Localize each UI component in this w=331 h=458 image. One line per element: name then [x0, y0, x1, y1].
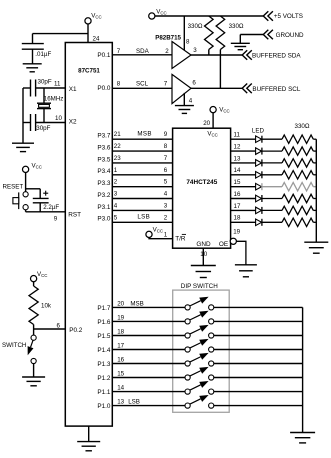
svg-text:9: 9 [54, 215, 58, 222]
capacitor C2 30pF plates [30, 80, 32, 97]
wire LED D6 to resistor [262, 198, 282, 200]
wire P3.0 to U3 [112, 221, 172, 223]
svg-text:P0.1: P0.1 [97, 52, 111, 59]
IC U1 87C751 microcontroller body [65, 43, 112, 427]
wire DIP switch row 7 to bus [214, 391, 303, 393]
svg-text:P1.3: P1.3 [97, 361, 111, 368]
crystal Y1 16MHz [37, 102, 51, 104]
svg-text:GND: GND [196, 241, 211, 248]
wire P1.7 to DIP switch [112, 306, 185, 308]
svg-text:P0.2: P0.2 [69, 327, 83, 334]
svg-text:SWITCH: SWITCH [2, 342, 26, 349]
LED D3 [256, 160, 262, 167]
wire P3.7 to U3 [112, 138, 172, 140]
capacitor C3 30pF plates [30, 114, 32, 131]
svg-text:11: 11 [234, 132, 241, 139]
wire Vcc rail to decoupling cap [33, 33, 89, 35]
power Vcc symbol for P82B715 rail [149, 13, 155, 19]
resistor 330 ohm row 6 [282, 194, 313, 202]
ground below switch [22, 376, 45, 378]
svg-text:30pF: 30pF [36, 125, 50, 132]
ground at connector [231, 42, 250, 44]
wire P1.3 to DIP switch [112, 363, 185, 365]
svg-text:19: 19 [117, 315, 124, 322]
wire U3 pin 13 to LED [231, 162, 256, 164]
wire LED ground bus [315, 139, 317, 242]
wire LED D1 to resistor [262, 138, 282, 140]
buffer U2a triangle [172, 42, 191, 69]
svg-text:16: 16 [117, 357, 124, 364]
power Vcc symbol for pin 1 [146, 231, 152, 237]
wire LED D2 to resistor [262, 150, 282, 152]
svg-text:10: 10 [200, 251, 207, 258]
svg-text:P3.6: P3.6 [97, 145, 111, 152]
svg-text:2.2µF: 2.2µF [43, 204, 59, 211]
svg-text:30pF: 30pF [38, 79, 52, 86]
svg-text:P3.7: P3.7 [97, 133, 111, 140]
svg-text:OE: OE [219, 241, 228, 248]
LED D8 [256, 219, 262, 226]
svg-text:21: 21 [114, 131, 121, 138]
wire crystal cap ground rail [22, 88, 24, 143]
wire C1 to ground [32, 49, 34, 64]
wire pin 4 to ground [183, 93, 185, 106]
wire resistor row 7 to bus [313, 209, 316, 211]
svg-text:P1.5: P1.5 [97, 333, 111, 340]
wire reset node to cap C4 [26, 188, 41, 190]
svg-text:+5 VOLTS: +5 VOLTS [274, 13, 303, 20]
svg-text:13: 13 [234, 155, 241, 162]
svg-text:20: 20 [117, 301, 124, 308]
wire P1.0 to DIP switch [112, 405, 185, 407]
wire P3.3 to U3 [112, 186, 172, 188]
capacitor C4 2.2uF plates [33, 197, 49, 199]
svg-text:BUFFERED SDA: BUFFERED SDA [252, 53, 301, 60]
svg-text:P1.0: P1.0 [97, 403, 111, 410]
wire C4 to RST net [39, 203, 41, 212]
svg-text:15: 15 [117, 371, 124, 378]
wire OE to ground [236, 241, 246, 264]
wire U3 pin 17 to LED [231, 209, 256, 211]
svg-text:330Ω: 330Ω [229, 23, 244, 30]
svg-text:18: 18 [117, 329, 124, 336]
svg-text:3: 3 [114, 191, 118, 198]
resistor R1 330 ohm pull-up [205, 16, 214, 50]
wire P1.4 to DIP switch [112, 349, 185, 351]
wire DIP switch row 1 to bus [214, 306, 303, 308]
wire P3.4 to U3 [112, 174, 172, 176]
wire Vcc to reset switch [25, 173, 27, 193]
connector BUFFERED SDA [242, 50, 247, 60]
wire P3.2 to U3 [112, 198, 172, 200]
wire P3.5 to U3 [112, 162, 172, 164]
wire pin 8 to rail [183, 16, 185, 51]
wire U3 pin 11 to LED [231, 138, 256, 140]
connector BUFFERED SCL [242, 84, 247, 94]
svg-text:7: 7 [117, 48, 121, 55]
DIP switch lever 2 [190, 315, 201, 320]
svg-text:P3.0: P3.0 [97, 216, 111, 223]
svg-text:P82B715: P82B715 [155, 35, 181, 42]
wire P3.1 to U3 [112, 209, 172, 211]
resistor 330 ohm row 5 [282, 183, 313, 191]
wire DIP switch row 6 to bus [214, 377, 303, 379]
svg-text:22: 22 [114, 143, 121, 150]
svg-text:MSB: MSB [130, 301, 143, 308]
DIP switch pole 4 [185, 347, 190, 352]
svg-text:3: 3 [193, 47, 197, 54]
svg-text:5: 5 [114, 214, 118, 221]
resistor R3 10k [33, 282, 35, 286]
DIP switch pole 2 [185, 319, 190, 324]
svg-text:17: 17 [234, 203, 241, 210]
svg-text:16MHz: 16MHz [44, 95, 64, 102]
wire resistor row 2 to bus [313, 150, 316, 152]
buffer U2b triangle [172, 74, 191, 103]
svg-text:P3.1: P3.1 [97, 204, 111, 211]
svg-text:1: 1 [164, 231, 168, 238]
capacitor C1 .01uF plates [22, 43, 44, 45]
wire U3 pin 12 to LED [231, 150, 256, 152]
svg-text:2: 2 [114, 179, 118, 186]
wire ground connector [240, 34, 263, 36]
svg-text:24: 24 [93, 35, 100, 42]
DIP switch lever 1 [190, 301, 201, 306]
wire P0.2 net [34, 328, 66, 330]
svg-text:87C751: 87C751 [78, 67, 100, 74]
wire MCU Vss to ground [88, 426, 90, 442]
LED D1 [256, 136, 262, 143]
svg-text:2: 2 [164, 214, 168, 221]
svg-text:4: 4 [114, 202, 118, 209]
LED D2 [256, 148, 262, 155]
LED D7 [256, 207, 262, 214]
DIP switch pole 8 [185, 403, 190, 408]
resistor 330 ohm row 7 [282, 206, 313, 214]
DIP switch pole 3 [185, 333, 190, 338]
wire +5V rail [155, 15, 263, 17]
svg-text:.01µF: .01µF [35, 51, 51, 58]
svg-text:17: 17 [117, 343, 124, 350]
svg-text:VCC: VCC [37, 271, 47, 278]
svg-text:6: 6 [57, 322, 61, 329]
wire DIP ground bus [302, 307, 304, 432]
svg-text:GROUND: GROUND [276, 32, 304, 39]
wire resistor row 4 to bus [313, 174, 316, 176]
wire SCL net [112, 87, 172, 89]
wire X1 net [23, 87, 31, 89]
svg-text:P1.2: P1.2 [97, 375, 111, 382]
svg-text:T/R: T/R [175, 236, 186, 243]
DIP switch lever 8 [190, 399, 201, 404]
svg-text:7: 7 [164, 80, 168, 87]
svg-text:14: 14 [234, 167, 241, 174]
svg-text:P3.5: P3.5 [97, 156, 111, 163]
DIP switch lever 4 [190, 343, 201, 348]
resistor 330 ohm row 2 [282, 147, 313, 155]
svg-text:X1: X1 [69, 86, 77, 93]
svg-text:SDA: SDA [136, 48, 150, 55]
wire buffered SCL [191, 87, 242, 89]
IC U3 74HCT245 body [173, 128, 231, 248]
wire P3.6 to U3 [112, 150, 172, 152]
svg-text:11: 11 [54, 80, 61, 87]
svg-text:15: 15 [234, 179, 241, 186]
svg-text:LSB: LSB [137, 214, 150, 221]
svg-text:P1.4: P1.4 [97, 347, 111, 354]
DIP switch lever 7 [190, 385, 201, 390]
svg-text:10: 10 [55, 115, 62, 122]
svg-text:RESET: RESET [3, 184, 24, 191]
svg-text:8: 8 [117, 81, 121, 88]
wire resistor row 8 to bus [313, 221, 316, 223]
connector GROUND [263, 30, 268, 40]
svg-text:20: 20 [203, 120, 210, 127]
wire X1 to crystal [43, 88, 45, 103]
wire resistor row 1 to bus [313, 138, 316, 140]
DIP switch box [173, 290, 230, 412]
capacitor C1 .01uF lead [32, 34, 34, 44]
wire P1.5 to DIP switch [112, 335, 185, 337]
resistor 330 ohm row 8 [282, 218, 313, 226]
DIP switch pole 7 [185, 389, 190, 394]
DIP switch pole 5 [185, 361, 190, 366]
svg-text:BUFFERED SCL: BUFFERED SCL [252, 86, 300, 93]
wire buffered SDA [191, 54, 242, 56]
ground below C1 [23, 63, 42, 65]
svg-text:10k: 10k [41, 303, 52, 310]
wire P1.2 to DIP switch [112, 377, 185, 379]
svg-text:VCC: VCC [219, 107, 229, 114]
resistor 330 ohm row 4 [282, 171, 313, 179]
LED D6 [256, 195, 262, 202]
pushbutton S1 RESET contacts [23, 192, 28, 197]
wire P1.6 to DIP switch [112, 320, 185, 322]
svg-text:330Ω: 330Ω [295, 123, 310, 130]
wire LED D8 to resistor [262, 221, 282, 223]
svg-text:12: 12 [234, 144, 241, 151]
svg-text:P1.6: P1.6 [97, 319, 111, 326]
svg-text:23: 23 [114, 155, 121, 162]
DIP switch lever 5 [190, 357, 201, 362]
wire LED D5 to resistor [262, 186, 282, 188]
wire RST net [26, 211, 66, 213]
DIP switch pole 6 [185, 375, 190, 380]
wire U3 pin 16 to LED [231, 198, 256, 200]
svg-text:3: 3 [164, 202, 168, 209]
wire Vcc to pin 24 [87, 24, 89, 43]
svg-text:6: 6 [192, 79, 196, 86]
connector +5 VOLTS [263, 11, 268, 21]
svg-text:X2: X2 [69, 118, 77, 125]
ground below OE [235, 264, 257, 266]
svg-text:P0.0: P0.0 [97, 85, 111, 92]
wire LED D3 to resistor [262, 162, 282, 164]
power Vcc symbol for 10k [30, 276, 36, 282]
wire P1.1 to DIP switch [112, 391, 185, 393]
wire U3 pin 14 to LED [231, 174, 256, 176]
DIP switch lever 6 [190, 371, 201, 376]
svg-text:VCC: VCC [32, 162, 42, 169]
wire resistor row 6 to bus [313, 198, 316, 200]
power Vcc symbol for reset [23, 166, 29, 172]
svg-text:7: 7 [164, 155, 168, 162]
svg-text:VCC: VCC [91, 12, 101, 19]
resistor 330 ohm row 1 [282, 135, 313, 143]
resistor 330 ohm row 3 [282, 159, 313, 167]
wire GND pin 10 to ground [202, 248, 204, 265]
wire DIP switch row 3 to bus [214, 335, 303, 337]
svg-text:14: 14 [117, 385, 124, 392]
LED D5 [256, 183, 262, 190]
switch S2 lower contact [31, 358, 36, 363]
svg-text:2: 2 [165, 48, 169, 55]
ground below MCU [77, 441, 100, 443]
svg-text:P1.7: P1.7 [97, 305, 111, 312]
svg-text:LSB: LSB [128, 399, 140, 406]
svg-text:MSB: MSB [137, 130, 151, 137]
svg-text:P3.4: P3.4 [97, 168, 111, 175]
wire node to switch [33, 329, 35, 335]
svg-text:8: 8 [164, 143, 168, 150]
ground below LED bus [304, 241, 328, 243]
svg-text:VCC: VCC [153, 226, 163, 233]
svg-text:P1.1: P1.1 [97, 389, 111, 396]
svg-text:74HCT245: 74HCT245 [186, 179, 217, 186]
wire switch to ground [33, 363, 35, 377]
switch S2 lever [31, 340, 33, 347]
power Vcc symbol for pin 24 [85, 18, 91, 24]
svg-text:5: 5 [164, 179, 168, 186]
DIP switch lever 3 [190, 329, 201, 334]
svg-text:9: 9 [164, 131, 168, 138]
wire resistor row 3 to bus [313, 162, 316, 164]
wire resistor row 5 to bus [313, 186, 316, 188]
svg-text:1: 1 [114, 167, 118, 174]
wire DIP switch row 5 to bus [214, 363, 303, 365]
ground below U2 pin 4 [175, 105, 194, 107]
wire DIP switch row 8 to bus [214, 405, 303, 407]
wire LED D7 to resistor [262, 209, 282, 211]
svg-text:DIP SWITCH: DIP SWITCH [181, 283, 218, 290]
DIP switch pole 1 [185, 305, 190, 310]
svg-text:P3.3: P3.3 [97, 180, 111, 187]
svg-text:8: 8 [186, 39, 190, 46]
ground below DIP bus [290, 432, 315, 434]
svg-text:4: 4 [164, 191, 168, 198]
polarity plus sign [43, 192, 48, 194]
svg-text:330Ω: 330Ω [188, 23, 203, 30]
wire X2 net [23, 122, 31, 124]
svg-text:16: 16 [234, 191, 241, 198]
wire DIP switch row 4 to bus [214, 349, 303, 351]
svg-text:LED: LED [252, 127, 265, 134]
svg-text:P3.2: P3.2 [97, 192, 111, 199]
wire U3 pin 18 to LED [231, 221, 256, 223]
wire crystal to X2 [43, 109, 45, 123]
svg-text:18: 18 [234, 215, 241, 222]
wire pin 1 T/R [149, 238, 173, 239]
svg-text:4: 4 [189, 97, 193, 104]
wire U3 pin 15 to LED [231, 186, 256, 188]
LED D4 [256, 172, 262, 179]
svg-text:6: 6 [164, 167, 168, 174]
wire pin 20 [212, 113, 214, 129]
svg-text:RST: RST [68, 211, 81, 218]
svg-text:VCC: VCC [156, 9, 166, 16]
ground below U3 GND [191, 265, 216, 267]
resistor R2 330 ohm pull-up [216, 16, 225, 50]
wire lower contact to RST [25, 210, 27, 212]
svg-text:13: 13 [117, 399, 124, 406]
inverter bubble pin 19 [230, 238, 236, 244]
wire SDA net [112, 54, 172, 56]
power Vcc symbol for pin 20 [210, 107, 216, 113]
ground below crystal caps [12, 142, 34, 144]
svg-text:19: 19 [233, 228, 240, 235]
wire DIP switch row 2 to bus [214, 320, 303, 322]
switch S2 upper contact [31, 335, 36, 340]
svg-text:SCL: SCL [136, 81, 149, 88]
wire LED D4 to resistor [262, 174, 282, 176]
